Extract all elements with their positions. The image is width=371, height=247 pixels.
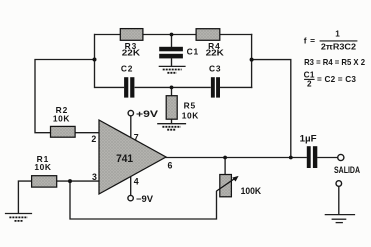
ground under R1 xyxy=(5,214,32,221)
svg-text:2: 2 xyxy=(91,134,96,144)
svg-text:C1: C1 xyxy=(304,70,315,79)
wire left rail xyxy=(94,34,96,88)
svg-text:R5: R5 xyxy=(184,101,197,111)
node R5 tap xyxy=(170,86,174,90)
wire R5 bottom lead xyxy=(171,119,173,123)
node pin 3 junction xyxy=(68,179,72,183)
svg-text:741: 741 xyxy=(116,153,133,165)
ground under C1 xyxy=(159,66,186,72)
svg-text:2: 2 xyxy=(307,80,312,89)
wire pin 7 lead xyxy=(130,116,132,139)
ground under R5 xyxy=(157,124,186,130)
svg-text:100K: 100K xyxy=(241,186,262,196)
-9V supply terminal xyxy=(128,194,153,204)
wire second rail middle segment xyxy=(135,86,211,88)
svg-text:10K: 10K xyxy=(182,110,199,120)
node left feedback tap xyxy=(93,58,97,62)
svg-text:C1: C1 xyxy=(187,46,199,56)
svg-text:3: 3 xyxy=(92,172,97,182)
wire top rail right segment xyxy=(220,34,253,36)
wire output ground terminal lead xyxy=(338,186,340,214)
resistor R4 xyxy=(196,29,220,41)
op-amp U1 741 xyxy=(99,120,166,194)
wire right rail xyxy=(251,34,253,88)
potentiometer 100K xyxy=(216,175,238,197)
output terminal SALIDA xyxy=(334,154,361,175)
capacitor 1uF xyxy=(307,146,318,168)
output ground terminal xyxy=(336,181,342,187)
+9V supply terminal xyxy=(128,109,158,119)
wire R5 top lead xyxy=(171,87,173,95)
wire right tap to output node xyxy=(252,60,291,158)
svg-text:10K: 10K xyxy=(53,114,70,124)
node potentiometer top junction xyxy=(223,156,227,160)
wire pin 4 lead xyxy=(130,176,132,196)
ground under output terminal xyxy=(325,215,355,223)
wire bottom rail to potentiometer wiper xyxy=(70,181,217,219)
svg-text:6: 6 xyxy=(168,160,173,170)
capacitor C3 xyxy=(211,77,220,97)
wire feedback tap to R2 xyxy=(35,60,95,133)
wire R1 to pin 3 xyxy=(57,180,100,182)
svg-text:= C2 = C3: = C2 = C3 xyxy=(317,75,356,84)
svg-text:−9V: −9V xyxy=(136,194,153,204)
wire potentiometer top lead xyxy=(224,158,226,175)
resistor R5 xyxy=(166,96,177,120)
wire second rail right segment xyxy=(220,86,252,88)
svg-text:10K: 10K xyxy=(34,162,51,172)
wire top rail left segment xyxy=(95,34,121,36)
svg-text:1: 1 xyxy=(335,29,340,38)
svg-text:f =: f = xyxy=(304,36,316,46)
wire C1 top lead xyxy=(171,35,173,48)
resistor R1 xyxy=(32,176,57,187)
wire R1 left lead to ground xyxy=(18,181,31,213)
wire output line xyxy=(166,157,307,159)
wire top rail middle segment xyxy=(143,34,197,36)
svg-text:2πR3C2: 2πR3C2 xyxy=(321,42,357,51)
node C1 tap xyxy=(170,33,174,37)
capacitor C2 xyxy=(124,77,134,97)
node right tap xyxy=(250,58,254,62)
svg-text:SALIDA: SALIDA xyxy=(334,165,361,175)
svg-text:R3 = R4 = R5 X 2: R3 = R4 = R5 X 2 xyxy=(304,58,365,67)
svg-text:22K: 22K xyxy=(206,48,224,58)
svg-text:C2: C2 xyxy=(121,63,133,73)
svg-text:+9V: +9V xyxy=(136,109,158,119)
svg-text:C3: C3 xyxy=(209,63,221,73)
formula f = 1/(2*pi*R3C2) xyxy=(304,29,358,51)
svg-text:22K: 22K xyxy=(122,48,140,58)
wire capacitor to output terminal xyxy=(317,157,338,159)
wire C1 bottom lead xyxy=(171,58,173,66)
svg-text:1µF: 1µF xyxy=(300,133,318,143)
formula C1/2 = C2 = C3 xyxy=(304,70,357,88)
resistor R2 xyxy=(51,126,76,137)
wire second rail left segment xyxy=(95,86,125,88)
wire R2 to pin 2 xyxy=(75,132,100,134)
svg-text:7: 7 xyxy=(134,132,139,142)
capacitor C1 xyxy=(159,47,183,59)
resistor R3 xyxy=(120,29,143,41)
node output junction xyxy=(289,156,293,160)
svg-text:4: 4 xyxy=(134,176,139,186)
